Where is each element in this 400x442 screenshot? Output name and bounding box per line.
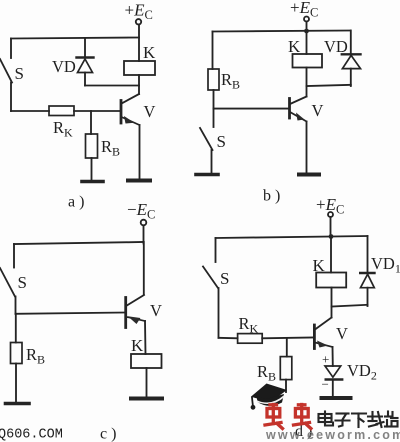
ground (d, VD2) — [322, 396, 351, 400]
svg-text:S: S — [15, 64, 24, 83]
svg-text:RB: RB — [221, 70, 240, 92]
svg-text:K: K — [143, 43, 156, 62]
wire RB drop (b) — [212, 32, 214, 70]
wire K to collector (d) — [331, 288, 333, 318]
watermark text dianzi xiazaizhan — [319, 412, 398, 428]
wire switch to RK (d) — [219, 337, 238, 340]
ground (a, emitter) — [128, 179, 150, 183]
resistor RK (a) — [49, 106, 74, 116]
wire top rail (b) — [213, 31, 351, 32]
diode VD (b) — [342, 31, 361, 87]
switch S (a) — [0, 39, 12, 112]
wire K to ground (c) — [146, 368, 148, 397]
svg-text:Q606.COM: Q606.COM — [0, 428, 63, 442]
wire rail to K (b) — [306, 31, 308, 54]
svg-text:+: + — [322, 352, 329, 367]
ground (b, emitter) — [299, 173, 319, 177]
wire base (b) — [214, 108, 290, 110]
wire collector drop (c) — [143, 242, 145, 294]
svg-text:b ): b ) — [263, 188, 280, 205]
wire supply drop (c) — [143, 226, 145, 244]
watermark graduation cap — [251, 384, 287, 410]
switch S (d) — [203, 238, 219, 338]
wire K to collector (b) — [306, 68, 308, 97]
svg-text:www.eeworm.com: www.eeworm.com — [265, 428, 400, 442]
svg-text:S: S — [18, 273, 27, 292]
svg-text:VD1: VD1 — [371, 254, 400, 276]
junction dot (d) — [329, 234, 334, 239]
wire RB down (d) — [285, 380, 287, 392]
svg-text:V: V — [144, 102, 156, 121]
ground (c, K) — [131, 397, 162, 401]
svg-text:S: S — [217, 132, 226, 151]
wire supply drop (b) — [306, 22, 308, 32]
relay coil K (b) — [293, 54, 323, 68]
transistor V (d) — [314, 325, 332, 349]
ground (c, RB) — [6, 402, 30, 406]
relay coil K (d) — [316, 273, 346, 288]
wire base (d) — [262, 337, 314, 340]
wire rail to K (d) — [330, 237, 332, 273]
ground (a, RB) — [82, 180, 103, 184]
node +EC supply (d) — [316, 195, 344, 217]
svg-text:c ): c ) — [100, 426, 116, 442]
junction dot (b) — [304, 29, 309, 34]
node +EC supply (a) — [125, 1, 153, 25]
wire supply drop (d) — [330, 217, 332, 237]
dian — [324, 412, 326, 424]
wire RB to base (b) — [213, 90, 215, 109]
svg-text:RB: RB — [101, 137, 120, 159]
watermark red character chong 1 — [265, 405, 283, 429]
resistor RB (d) — [280, 357, 292, 380]
svg-text:−: − — [322, 377, 329, 392]
wire top rail (a) — [11, 38, 139, 39]
svg-text:+EC: +EC — [316, 195, 344, 217]
watermark red character chong 2 — [294, 405, 311, 429]
relay coil K (a) — [124, 61, 155, 75]
wire RB drop (c) — [15, 314, 17, 343]
svg-text:V: V — [150, 301, 162, 320]
wire emitter to ground (a) — [139, 125, 141, 179]
wire RB drop (d) — [286, 338, 288, 356]
resistor RK (d) — [238, 334, 263, 344]
resistor RB (c) — [11, 343, 23, 364]
svg-text:V: V — [336, 324, 348, 343]
svg-text:RK: RK — [53, 118, 73, 140]
zhan — [387, 412, 389, 417]
svg-text:RB: RB — [26, 345, 45, 367]
svg-text:RK: RK — [239, 314, 259, 336]
wire collector lead (d) — [315, 318, 332, 330]
wire collector lead (b) — [290, 97, 307, 105]
wire base (a) — [74, 110, 120, 112]
xia — [352, 412, 366, 414]
wire base (c) — [16, 313, 126, 314]
svg-text:RB: RB — [257, 362, 276, 384]
wire emitter to ground (b) — [306, 122, 308, 174]
svg-text:VD2: VD2 — [347, 361, 377, 383]
svg-text:VD: VD — [52, 57, 76, 76]
ground (b, switch) — [196, 173, 218, 177]
zai — [368, 415, 382, 417]
diode VD2 (d) — [325, 366, 342, 397]
diode VD1 (d) — [360, 236, 374, 306]
transistor V (b) — [290, 99, 307, 122]
node +EC supply (b) — [290, 0, 318, 22]
svg-text:S: S — [220, 269, 229, 288]
wire top rail (d) — [216, 236, 368, 238]
transistor V (c) — [126, 298, 145, 328]
switch S (c) — [0, 244, 16, 314]
svg-text:VD: VD — [324, 37, 348, 56]
resistor RB (b) — [208, 69, 219, 90]
resistor RB (a) — [86, 134, 98, 158]
transistor V (a) — [121, 101, 140, 126]
wire RB to ground (c) — [15, 364, 17, 403]
wire RB to ground (a) — [91, 158, 93, 180]
svg-text:a ): a ) — [68, 194, 84, 211]
wire collector lead (c) — [126, 295, 144, 306]
diode VD (a) — [77, 38, 94, 86]
wire emitter to K (c) — [144, 321, 147, 354]
relay coil K (c) — [131, 354, 162, 368]
node -EC supply (c) — [127, 200, 155, 225]
switch S (b) — [200, 109, 214, 173]
wire base-left (a) — [11, 110, 49, 112]
svg-text:−EC: −EC — [127, 200, 155, 222]
wire diode to collector (a) — [85, 85, 139, 87]
wire supply drop (a) — [138, 25, 140, 62]
svg-text:K: K — [131, 336, 144, 355]
wire to VD1 bottom (d) — [332, 305, 368, 307]
wire collector (a) — [122, 75, 140, 104]
wire RB drop (a) — [90, 111, 92, 134]
wire top rail (c) — [14, 242, 144, 244]
wire emitter to VD2 (d) — [332, 347, 334, 366]
svg-text:V: V — [312, 101, 324, 120]
zi — [337, 412, 349, 414]
wire to diode bottom (b) — [307, 85, 351, 86]
